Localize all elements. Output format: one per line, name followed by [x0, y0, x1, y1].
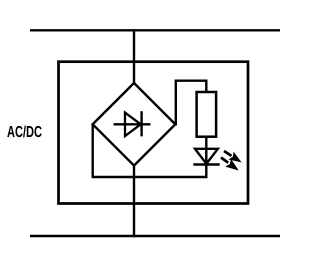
- LED light arrow 2: [218, 154, 241, 175]
- diode D1 lead: [114, 123, 151, 125]
- LED D2 cathode bar: [193, 163, 219, 165]
- wire bridge - output down: [91, 124, 93, 179]
- resistor R1 body: [197, 92, 217, 137]
- diode D1 cathode bar: [140, 111, 142, 136]
- LED D2 triangle: [195, 149, 218, 164]
- wire from bridge output to bottom rail: [133, 164, 135, 237]
- LED light arrow 1: [221, 147, 244, 166]
- bottom supply rail wire: [30, 235, 280, 237]
- wire resistor bottom through LED: [205, 137, 207, 179]
- label AC/DC: [7, 125, 41, 137]
- diode D1 triangle: [125, 113, 141, 137]
- component enclosure box: [59, 62, 249, 204]
- top supply rail wire: [30, 29, 280, 31]
- wire from top rail to bridge input: [133, 29, 135, 84]
- bridge rectifier diamond B1: [93, 83, 176, 166]
- wire bridge + output to resistor top: [176, 81, 207, 126]
- wire LED cathode to bridge - output: [93, 176, 208, 178]
